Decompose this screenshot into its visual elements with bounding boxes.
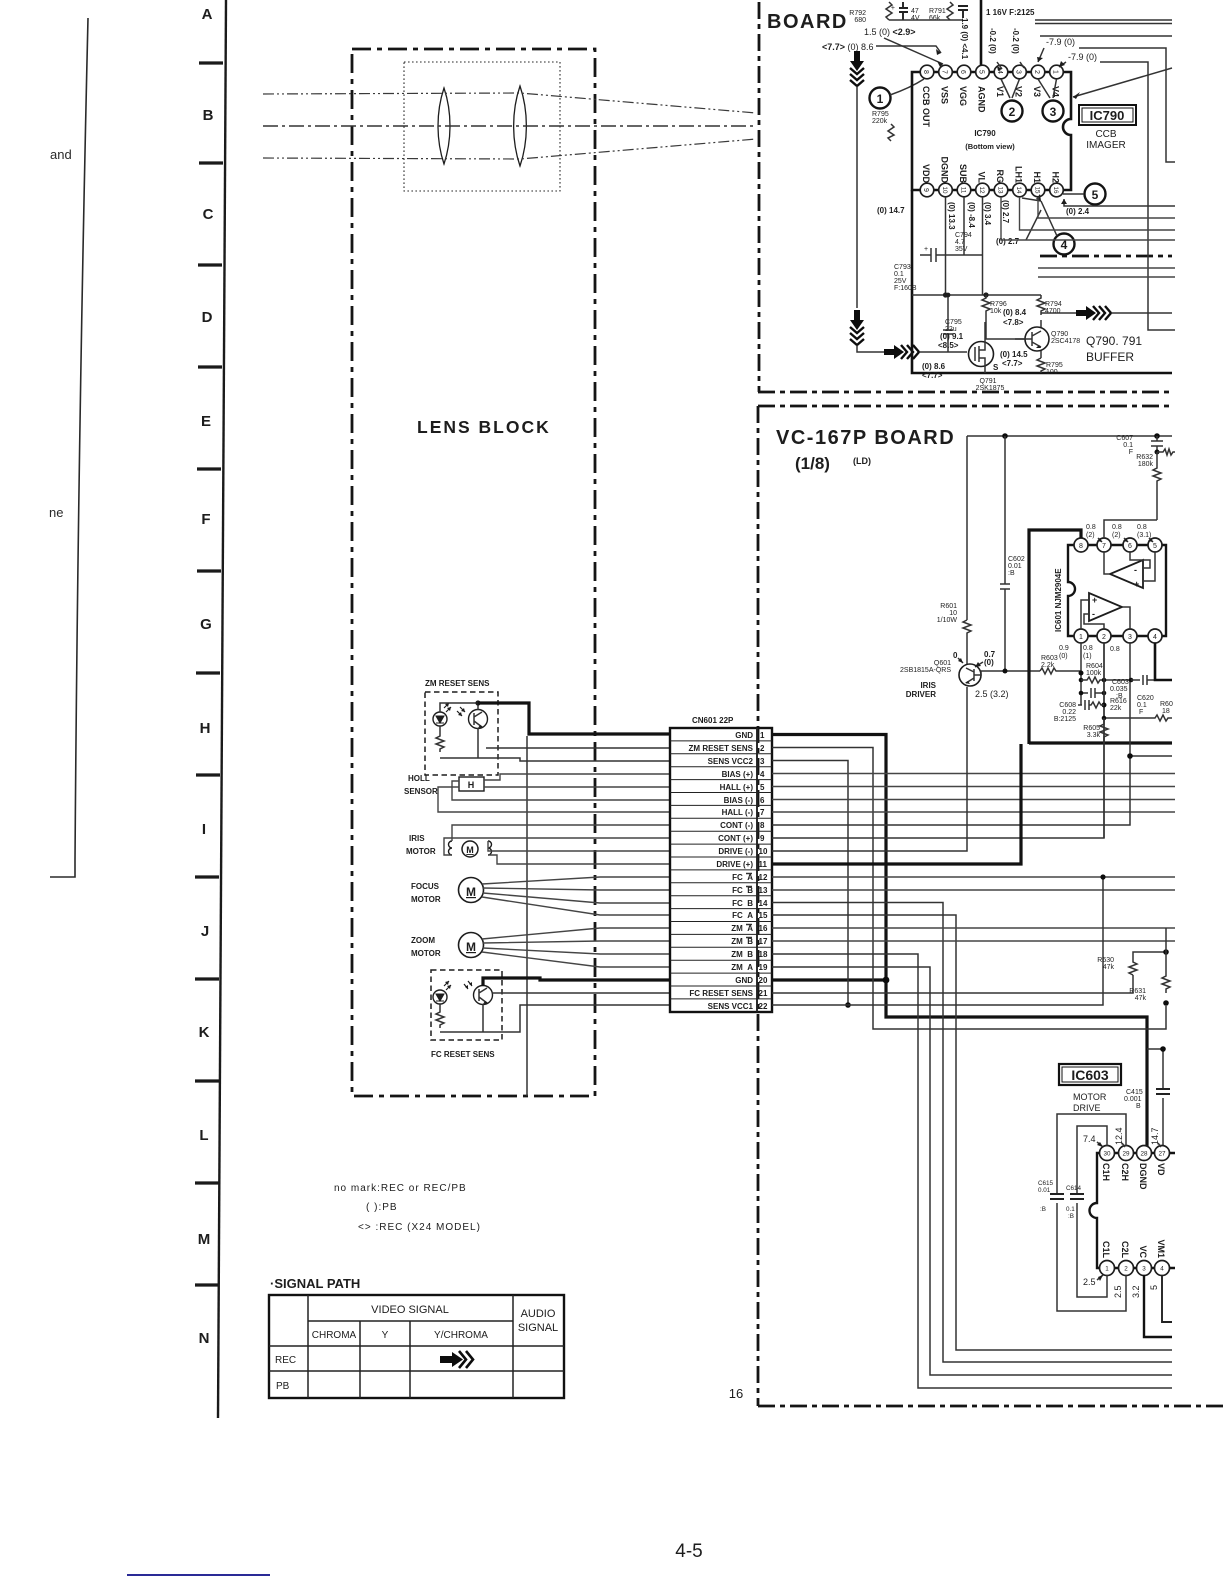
svg-text:10: 10 <box>759 847 768 856</box>
svg-text:DRIVE: DRIVE <box>1073 1103 1101 1113</box>
svg-text:2.5 (3.2): 2.5 (3.2) <box>975 689 1009 699</box>
wire focus FCA pin15 <box>482 897 670 915</box>
FC resistor <box>436 1004 483 1032</box>
svg-text:CCB OUT: CCB OUT <box>921 86 931 127</box>
svg-text:4700: 4700 <box>1045 308 1061 315</box>
svg-text:I: I <box>202 821 206 838</box>
IC790 pin 3 <box>1013 65 1027 79</box>
op-amp B <box>1089 593 1122 621</box>
svg-text:10: 10 <box>941 186 948 194</box>
svg-text:D: D <box>202 309 213 326</box>
signal arrow right Q790 <box>1076 306 1096 320</box>
svg-text:BUFFER: BUFFER <box>1086 350 1134 364</box>
svg-text:12: 12 <box>978 186 985 194</box>
svg-text:3: 3 <box>1015 70 1022 74</box>
svg-text:3: 3 <box>1050 105 1057 119</box>
svg-text:R792: R792 <box>849 10 866 17</box>
wire pin17 <box>772 940 1175 942</box>
IC601 pin 7 <box>1097 538 1111 552</box>
svg-text:VC: VC <box>1138 1245 1148 1258</box>
wire pin8 <box>772 756 1130 825</box>
svg-text:16: 16 <box>1052 186 1059 194</box>
svg-text:F:160B: F:160B <box>894 285 917 292</box>
svg-text:47k: 47k <box>1103 964 1115 971</box>
svg-text:9: 9 <box>922 188 929 192</box>
svg-text:IMAGER: IMAGER <box>1086 140 1125 151</box>
svg-text:E: E <box>201 413 211 430</box>
svg-text:Y: Y <box>382 1330 389 1341</box>
svg-text:R795: R795 <box>872 111 889 118</box>
svg-text:VIDEO SIGNAL: VIDEO SIGNAL <box>371 1304 449 1316</box>
svg-text:M: M <box>198 1231 211 1248</box>
svg-text:C793: C793 <box>894 264 911 271</box>
svg-text:C607: C607 <box>1116 435 1133 442</box>
iris coil right <box>488 841 492 855</box>
svg-text:1: 1 <box>877 92 884 106</box>
svg-text:<7.7>: <7.7> <box>922 371 943 380</box>
svg-text:ZM B: ZM B <box>731 937 753 946</box>
svg-text:VD: VD <box>1156 1163 1166 1176</box>
signal arrow right into Q791 <box>884 345 904 359</box>
svg-text:2SC4178: 2SC4178 <box>1051 338 1080 345</box>
svg-text:VSS: VSS <box>940 86 950 104</box>
svg-text:(0) -8.4: (0) -8.4 <box>967 202 976 228</box>
IC790 body <box>912 72 1071 190</box>
wire pin3 down right <box>1130 643 1172 756</box>
svg-text:BIAS (-): BIAS (-) <box>724 796 754 805</box>
ruler tick row A/B <box>199 61 223 64</box>
mechanism line <box>526 736 528 1096</box>
svg-text:1: 1 <box>1105 1266 1109 1273</box>
IC601 pin 1 <box>1074 629 1088 643</box>
wire gnd cap drop <box>1147 1049 1163 1146</box>
svg-text:1.9 (0) <4.1: 1.9 (0) <4.1 <box>960 18 969 60</box>
svg-text:MOTOR: MOTOR <box>1073 1092 1107 1102</box>
svg-text:3.3k: 3.3k <box>1087 732 1101 739</box>
IC603 pin 3 <box>1137 1261 1152 1276</box>
svg-text:5: 5 <box>1153 543 1157 550</box>
junction C602 bottom <box>1003 669 1008 674</box>
wire zoom ZMB pin18 <box>483 948 670 954</box>
capacitor C792 47 4V <box>899 2 908 20</box>
FC reset sensor box <box>431 970 502 1040</box>
wire SUB to cap <box>964 197 983 295</box>
wire pin15 <box>772 915 1172 1350</box>
svg-text:(2): (2) <box>1112 532 1121 539</box>
svg-text:and: and <box>50 147 72 162</box>
svg-text:1: 1 <box>1079 634 1083 641</box>
wire pin3 VC <box>1144 1275 1172 1337</box>
svg-text:0.8: 0.8 <box>1137 524 1147 531</box>
wire pin22 <box>772 877 1103 1005</box>
iris motor M <box>462 841 478 857</box>
transistor Q791 2SK1875 FET <box>969 342 994 367</box>
svg-text:CCB: CCB <box>1095 129 1116 140</box>
svg-text:ZM A: ZM A <box>731 924 753 933</box>
svg-text:(0) 13.3: (0) 13.3 <box>947 202 956 230</box>
IC790 pin 12 <box>976 183 990 197</box>
svg-text:<7.7> (0) 8.6: <7.7> (0) 8.6 <box>822 42 874 52</box>
wire ZM vcc to pin3 <box>478 758 670 761</box>
svg-text:2.5: 2.5 <box>1113 1285 1123 1298</box>
svg-text:1.5 (0) <2.9>: 1.5 (0) <2.9> <box>864 27 916 37</box>
lines to right block <box>1038 268 1175 277</box>
thick power loop to pin8 <box>1029 530 1081 744</box>
wire pin6 <box>772 799 1175 801</box>
svg-text:IC790: IC790 <box>974 129 996 138</box>
lens element 1 <box>438 88 450 164</box>
focus motor M <box>459 878 484 903</box>
svg-text:0.1: 0.1 <box>894 271 904 278</box>
svg-text:8: 8 <box>760 821 765 830</box>
op-amp A <box>1110 560 1143 588</box>
margin ruler line <box>218 0 226 1418</box>
svg-text:100k: 100k <box>1086 670 1102 677</box>
IC790 pin 5 <box>976 65 990 79</box>
pointer 1.5 to VSS pin <box>884 38 943 64</box>
VC board top border <box>758 405 1172 408</box>
svg-text:16: 16 <box>759 924 768 933</box>
svg-text:IC790: IC790 <box>1090 108 1125 123</box>
ruler tick K/L <box>195 1079 219 1082</box>
IC790 pin 9 <box>920 183 934 197</box>
svg-text:L: L <box>199 1127 208 1144</box>
wire pin13 <box>772 889 1175 891</box>
capacitor C791 <box>958 6 968 18</box>
svg-text:+: + <box>1092 595 1097 605</box>
pointer H1 to tp4 <box>1022 198 1057 236</box>
svg-text:K: K <box>199 1024 210 1041</box>
svg-text:4V: 4V <box>911 15 920 22</box>
svg-text:2: 2 <box>1009 105 1016 119</box>
svg-text:M: M <box>466 885 476 899</box>
test point 5 <box>1085 184 1106 205</box>
svg-text:FC B: FC B <box>732 899 753 908</box>
svg-text:100: 100 <box>1046 369 1058 376</box>
svg-text:19: 19 <box>759 963 768 972</box>
svg-text:R632: R632 <box>1136 454 1153 461</box>
wire R604 row to pin3 <box>1104 679 1131 681</box>
IC601 pin 3 <box>1123 629 1137 643</box>
svg-text:B: B <box>203 107 214 124</box>
ruler tick C/D <box>198 263 222 266</box>
svg-text:7: 7 <box>760 808 765 817</box>
svg-text:3: 3 <box>1128 634 1132 641</box>
ruler tick J/K <box>195 977 219 980</box>
junction cap drop <box>1160 1046 1166 1052</box>
wire AGND vertical <box>980 0 983 65</box>
svg-text:2: 2 <box>1033 70 1040 74</box>
svg-text:0: 0 <box>953 651 958 660</box>
svg-text:13: 13 <box>997 186 1004 194</box>
svg-text:+: + <box>924 246 928 253</box>
ruler tick D/E <box>198 365 222 368</box>
svg-text:14.7: 14.7 <box>1150 1127 1160 1145</box>
svg-text:220k: 220k <box>872 118 888 125</box>
svg-text:C620: C620 <box>1137 695 1154 702</box>
IC601 pin 4 <box>1148 629 1162 643</box>
svg-text:-7.9 (0): -7.9 (0) <box>1068 52 1097 62</box>
svg-text:VL: VL <box>977 171 987 183</box>
svg-text:(0): (0) <box>984 658 994 667</box>
svg-text:(0) 2.4: (0) 2.4 <box>1066 207 1090 216</box>
svg-text::B: :B <box>1040 1206 1046 1213</box>
svg-text:(0) 8.6: (0) 8.6 <box>922 362 946 371</box>
signal path table frame <box>269 1295 564 1398</box>
svg-text:VC-167P BOARD: VC-167P BOARD <box>776 427 955 449</box>
wire focus FCnA pin12 <box>482 877 670 884</box>
svg-text:C2L: C2L <box>1120 1241 1130 1259</box>
svg-text:IC601 NJM2904E: IC601 NJM2904E <box>1054 568 1063 632</box>
svg-text:G: G <box>200 616 212 633</box>
wire hall bias+ pin4 <box>484 774 670 780</box>
junction C602 top <box>1002 433 1008 439</box>
junction rail y295 <box>912 294 1041 296</box>
svg-text:SIGNAL: SIGNAL <box>518 1322 558 1334</box>
svg-text::B: :B <box>1008 570 1015 577</box>
svg-text:C615: C615 <box>1038 1180 1054 1187</box>
svg-text:30: 30 <box>1103 1151 1111 1158</box>
transistor Q790 2SC4178 <box>1025 327 1049 351</box>
IC790 pin 16 <box>1050 183 1064 197</box>
svg-text:R794: R794 <box>1045 301 1062 308</box>
svg-text:35V: 35V <box>955 246 968 253</box>
svg-text:8: 8 <box>1079 543 1083 550</box>
wire zoom ZMnB pin17 <box>483 941 670 943</box>
svg-text:16: 16 <box>729 1386 743 1401</box>
wire zoom ZMA pin19 <box>482 952 670 967</box>
wire pin4 thick <box>1155 643 1172 680</box>
svg-text:21: 21 <box>759 989 768 998</box>
IC790 pin 7 <box>939 65 953 79</box>
svg-text:C415: C415 <box>1126 1089 1143 1096</box>
wire pin1 GND thick <box>772 735 1147 1147</box>
wire pin21 <box>772 975 1133 993</box>
IC790 pin 1 <box>1050 65 1064 79</box>
svg-text:V3: V3 <box>1032 86 1042 97</box>
svg-text:0.01: 0.01 <box>1008 563 1022 570</box>
wire focus FCnB pin13 <box>483 888 670 890</box>
optical ray bottom <box>263 139 756 159</box>
svg-text:HALL (+): HALL (+) <box>720 783 754 792</box>
IC601 pin 8 <box>1074 538 1088 552</box>
svg-text:(0) 14.7: (0) 14.7 <box>877 206 905 215</box>
svg-text:2SB1815A-QRS: 2SB1815A-QRS <box>900 667 951 674</box>
svg-text:DRIVE (-): DRIVE (-) <box>718 847 753 856</box>
svg-text:F: F <box>1129 449 1133 456</box>
svg-text:4: 4 <box>996 70 1003 74</box>
svg-text:13: 13 <box>759 886 768 895</box>
ruler tick G/H <box>196 671 220 674</box>
wire ZM out to pin2 <box>486 747 670 749</box>
svg-text:LH1: LH1 <box>1014 166 1024 183</box>
IC790 pin 15 <box>1031 183 1045 197</box>
svg-text:V1: V1 <box>995 86 1005 97</box>
ruler tick H/I <box>196 773 220 776</box>
wire FC out to pin21 <box>492 992 670 994</box>
svg-text:S: S <box>993 363 999 372</box>
svg-text:IRIS: IRIS <box>409 834 425 843</box>
svg-text:15: 15 <box>1034 186 1041 194</box>
svg-text:ZM RESET SENS: ZM RESET SENS <box>425 679 490 688</box>
svg-text:AUDIO: AUDIO <box>521 1308 556 1320</box>
CCD board bottom border <box>758 391 1172 394</box>
junction network <box>1079 671 1084 676</box>
wire pin7 top loop <box>1104 520 1157 538</box>
CCD board left border <box>758 2 761 392</box>
svg-text:M: M <box>466 845 474 855</box>
svg-text:2: 2 <box>1102 634 1106 641</box>
svg-text:R604: R604 <box>1086 663 1103 670</box>
ZM phototransistor <box>469 710 488 729</box>
wire pin2 network <box>1103 643 1105 838</box>
wire pin10 <box>772 687 967 851</box>
svg-text:C608: C608 <box>1059 702 1076 709</box>
svg-text:-7.9 (0): -7.9 (0) <box>1046 37 1075 47</box>
svg-text:HALL (-): HALL (-) <box>722 808 754 817</box>
junction C607 top <box>1154 433 1160 439</box>
IC603 pin 2 <box>1119 1261 1134 1276</box>
IC790 pin 14 <box>1013 183 1027 197</box>
svg-text:9: 9 <box>760 834 765 843</box>
svg-text:+: + <box>1134 579 1139 589</box>
ruler tick F/G <box>197 569 221 572</box>
svg-text:(0) 9.1: (0) 9.1 <box>940 332 964 341</box>
IC603 pin 29 <box>1119 1146 1134 1161</box>
junction R632 top <box>1155 450 1160 455</box>
wire pin19 <box>772 967 1172 1375</box>
svg-text:CHROMA: CHROMA <box>312 1330 357 1341</box>
svg-text:8: 8 <box>922 70 929 74</box>
wire iris drive+ pin11 <box>488 855 670 864</box>
svg-text:H: H <box>468 780 475 790</box>
svg-text:180k: 180k <box>1138 461 1154 468</box>
wire pin4 <box>772 773 1175 775</box>
svg-text:4-5: 4-5 <box>675 1541 702 1562</box>
wire top rail <box>889 19 963 21</box>
wire pin12 <box>772 876 1175 878</box>
VC board left border <box>757 406 760 1406</box>
svg-text:47: 47 <box>911 8 919 15</box>
svg-text:MOTOR: MOTOR <box>411 949 441 958</box>
svg-text:47k: 47k <box>1135 995 1147 1002</box>
svg-text:MOTOR: MOTOR <box>406 847 436 856</box>
op-amp wires <box>1081 552 1155 629</box>
wire LH1 right <box>1020 197 1176 230</box>
lens group dotted box <box>404 62 560 191</box>
svg-text:H2: H2 <box>1051 171 1061 183</box>
V1 V2 wires <box>1001 79 1020 98</box>
svg-text:0.1: 0.1 <box>1066 1206 1075 1213</box>
svg-text:B: B <box>1136 1103 1141 1110</box>
wire tp1 to pin8 <box>890 79 924 95</box>
svg-text:2SK1875: 2SK1875 <box>976 385 1005 392</box>
svg-text:14: 14 <box>1015 186 1022 194</box>
svg-text:BOARD: BOARD <box>767 11 848 33</box>
IC790 pin 11 <box>957 183 971 197</box>
svg-text:DGND: DGND <box>1138 1163 1148 1190</box>
svg-text:29: 29 <box>1122 1151 1130 1158</box>
table row lines <box>269 1321 564 1371</box>
svg-text:22: 22 <box>759 1002 768 1011</box>
svg-text:-: - <box>1134 565 1137 575</box>
svg-text:R796: R796 <box>990 301 1007 308</box>
IC601 body <box>1068 545 1166 636</box>
svg-text:0.035: 0.035 <box>1110 686 1128 693</box>
svg-text:17: 17 <box>759 937 768 946</box>
svg-text:R60: R60 <box>1160 701 1173 708</box>
svg-text:7.4: 7.4 <box>1083 1134 1096 1144</box>
junction pin20 <box>883 977 890 984</box>
svg-text:BIAS (+): BIAS (+) <box>722 770 754 779</box>
svg-text:(0) 3.4: (0) 3.4 <box>983 202 992 226</box>
wire RG right <box>1001 197 1175 240</box>
svg-text:IRIS: IRIS <box>920 681 936 690</box>
svg-text:7: 7 <box>1102 543 1106 550</box>
svg-text:R605: R605 <box>1083 725 1100 732</box>
svg-text:5: 5 <box>978 70 985 74</box>
IC601 pin 2 <box>1097 629 1111 643</box>
svg-text:1: 1 <box>1052 70 1059 74</box>
svg-text:<7.8>: <7.8> <box>1003 318 1024 327</box>
svg-text:FC RESET SENS: FC RESET SENS <box>689 989 753 998</box>
wire top rail y432 <box>967 435 1172 437</box>
inner loop C614 <box>1077 1126 1107 1297</box>
svg-text:10: 10 <box>949 610 957 617</box>
CCD board bottom border jog right <box>1040 255 1172 258</box>
svg-text::B: :B <box>1068 1213 1074 1220</box>
svg-text:(1/8): (1/8) <box>795 454 830 473</box>
svg-text:28: 28 <box>1140 1151 1148 1158</box>
svg-text:C614: C614 <box>1066 1185 1082 1192</box>
wire H2 to tp5 <box>1063 194 1175 206</box>
svg-text:CONT (-): CONT (-) <box>720 821 753 830</box>
optical axis center <box>263 125 756 127</box>
svg-text:+: + <box>891 5 895 12</box>
svg-text:66k: 66k <box>929 15 941 22</box>
wire CCB OUT vertical <box>856 86 858 308</box>
wire DGND down <box>945 197 947 295</box>
svg-text:Q791: Q791 <box>979 378 996 385</box>
wire hall hall+ pin5 <box>484 786 670 788</box>
svg-text:-: - <box>1092 609 1095 619</box>
svg-text:R631: R631 <box>1129 988 1146 995</box>
signal arrow down (lower) <box>850 310 864 330</box>
IC790 pin 10 <box>939 183 953 197</box>
connector row lines <box>670 741 772 999</box>
wire -7.9 upper to right <box>1079 48 1175 162</box>
svg-text:6: 6 <box>760 796 765 805</box>
test point 3 <box>1043 101 1064 122</box>
svg-text:C2H: C2H <box>1120 1163 1130 1181</box>
ruler tick I/J <box>195 875 219 878</box>
capacitor row y693 <box>1081 688 1104 698</box>
lens block border <box>352 49 595 1096</box>
top right line 2 <box>1040 35 1172 37</box>
svg-text:R616: R616 <box>1110 698 1127 705</box>
svg-text:SUB: SUB <box>958 164 968 184</box>
hall sensor H <box>459 777 484 791</box>
wire H1 right <box>1038 197 1175 218</box>
svg-text:R630: R630 <box>1097 957 1114 964</box>
svg-text:7: 7 <box>941 70 948 74</box>
svg-text:11: 11 <box>759 860 768 869</box>
signal arrow down (top) <box>850 51 864 71</box>
svg-text:FC B: FC B <box>732 886 753 895</box>
svg-text:M: M <box>466 940 476 954</box>
thick rail y743 <box>1029 741 1172 744</box>
left page-fold line <box>50 18 88 877</box>
